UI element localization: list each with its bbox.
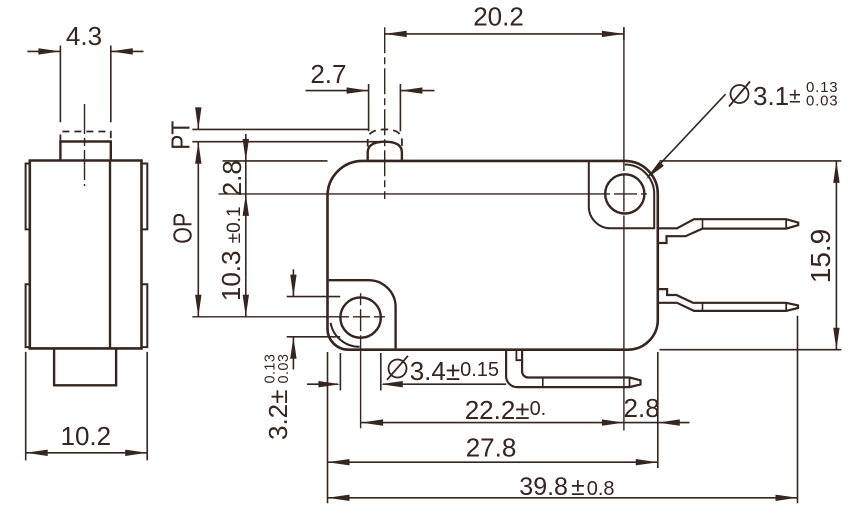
svg-text:0.03: 0.03 [276, 354, 292, 384]
svg-text:10.3 ±0.1: 10.3 ±0.1 [216, 206, 246, 301]
bottom common terminal L-shaped [506, 350, 640, 387]
bottom hole lower tangent line [287, 336, 341, 338]
bottom terminal tick [542, 378, 544, 387]
svg-text:0.03: 0.03 [806, 93, 838, 110]
lower pin blade tick [702, 303, 704, 311]
dim 4.3 extension lines [60, 46, 110, 123]
body top extension right [660, 160, 842, 162]
dim 2.7 extension lines [369, 84, 401, 131]
svg-text:3.4±0.15: 3.4±0.15 [410, 356, 499, 386]
bottom extension line pin tip [797, 316, 799, 504]
side view plunger free position dashed [60, 132, 110, 142]
top-right mounting hole [605, 174, 644, 213]
side view tab upper-left [26, 164, 30, 230]
svg-text:39.8±0.8: 39.8±0.8 [519, 473, 614, 501]
dim 15.9 dimension line [835, 161, 837, 350]
bottom-left mounting hole [340, 297, 380, 337]
dim 4.3 dimension line [27, 50, 143, 52]
front plunger solid [368, 142, 402, 161]
side view plunger solid [60, 142, 110, 161]
dim 3.2 arrows [290, 275, 296, 359]
lower terminal pin [658, 289, 798, 311]
dim PT OP arrows [195, 107, 201, 316]
dim 2.8 and 10.3 dimension line [245, 134, 247, 317]
dim 20.2 arrows [385, 31, 624, 37]
body top extension left [223, 160, 328, 162]
PT upper reference line [192, 128, 368, 130]
svg-text:2.8: 2.8 [624, 393, 660, 423]
main body outline [328, 161, 658, 350]
leader arrow [646, 161, 664, 179]
dim 3.2 dimension line [292, 269, 294, 369]
lower pin blade end face [785, 303, 787, 311]
bottom-left hole vertical center line [360, 293, 362, 428]
dim 15.9 arrows [833, 161, 839, 350]
label dia 3.1 symbol [729, 82, 750, 107]
dim 10.2 extension lines [26, 352, 148, 461]
svg-text:27.8: 27.8 [466, 433, 517, 463]
svg-text:PT: PT [165, 121, 195, 150]
dim 27.8 arrows [328, 459, 658, 465]
dim 3.4 dimension line [307, 383, 506, 385]
dim 3.4 arrows [318, 381, 402, 387]
side view tab upper-right [142, 164, 148, 230]
dim 27.8 dimension line [328, 461, 658, 463]
leader line for hole 3.1 [649, 94, 726, 176]
dim 3.4 tangent extension lines [340, 353, 380, 391]
svg-text:15.9: 15.9 [805, 229, 836, 284]
svg-text:2.8: 2.8 [217, 160, 247, 196]
svg-text:4.3: 4.3 [66, 21, 102, 51]
svg-text:3.2±: 3.2± [263, 390, 293, 440]
side view inner edge line [109, 161, 111, 349]
bottom terminal notch [516, 350, 522, 361]
bottom-left boss corner arc [331, 323, 360, 347]
PT lower reference line [192, 141, 381, 143]
side view bottom lug [54, 348, 116, 385]
dim 2.7 dimension line [306, 90, 435, 92]
dim 20.2 dimension line [385, 33, 624, 35]
bottom extension line body right [657, 352, 659, 468]
bottom-left mounting boss [329, 280, 396, 348]
bottom hole upper tangent line [287, 296, 341, 298]
upper pin blade end face [785, 219, 787, 228]
dim 39.8 dimension line [328, 497, 798, 499]
bottom extension line body left [327, 352, 329, 503]
dim 2.8 and 10.3 arrows [243, 139, 249, 317]
dim 10.2 dimension line [26, 452, 148, 454]
dim 39.8 arrows [328, 495, 798, 501]
top-right hole horizontal center line [219, 193, 648, 195]
plunger center line front view [384, 27, 386, 199]
side view tab lower-right [142, 284, 148, 347]
dim PT OP dimension line [197, 107, 199, 316]
dim 10.2 arrows [26, 450, 148, 456]
dim 2.7 arrows [347, 87, 423, 93]
bottom-left hole horizontal center line [192, 316, 385, 318]
dim 20.2 extension line right [623, 27, 625, 40]
body bottom extension right [660, 349, 842, 351]
upper terminal pin [658, 219, 798, 243]
dim 22.2 and 2.8 arrows [361, 419, 680, 425]
dim 22.2 dimension line [361, 422, 689, 424]
label dia 3.4 symbol [387, 356, 408, 380]
upper pin blade tick [702, 219, 704, 228]
dim 4.3 arrows [38, 48, 132, 54]
side view plunger center line [84, 104, 86, 186]
front plunger free position dashed [368, 129, 402, 146]
side view tab lower-left [26, 284, 30, 347]
svg-text:3.1±: 3.1± [753, 81, 801, 111]
svg-text:2.7: 2.7 [310, 59, 346, 89]
svg-text:10.2: 10.2 [60, 421, 111, 451]
top-right hole vertical center line [623, 27, 625, 430]
bottom terminal chamfer face [629, 378, 631, 388]
svg-text:22.2±0.: 22.2±0. [465, 395, 547, 425]
svg-text:OP: OP [167, 213, 197, 244]
svg-text:20.2: 20.2 [473, 2, 524, 32]
top-right mounting boss [589, 162, 654, 229]
side view body [30, 161, 142, 349]
